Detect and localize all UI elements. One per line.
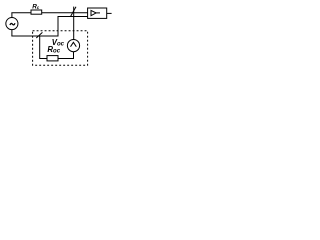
svg-text:Rc: Rc bbox=[32, 4, 40, 11]
